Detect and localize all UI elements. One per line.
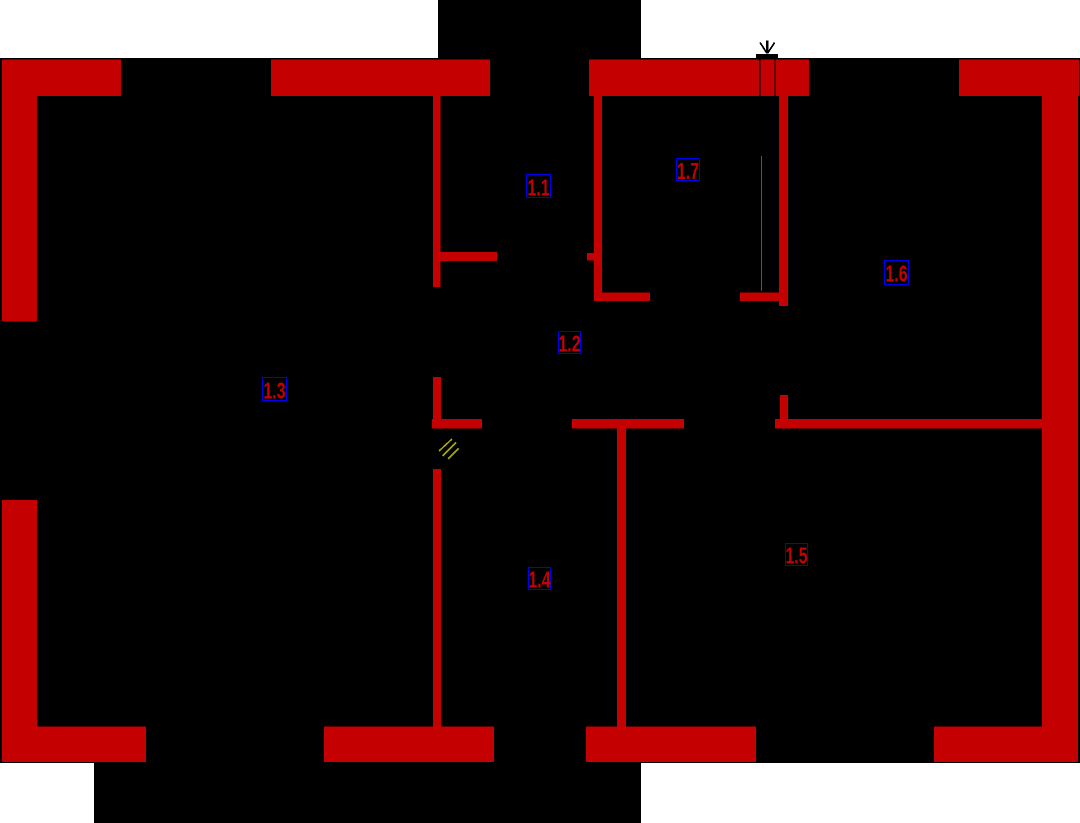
wall left upper vertical	[2, 60, 37, 322]
svg-text:1.1: 1.1	[528, 175, 550, 201]
room label 1.6	[885, 261, 909, 287]
wall right vertical	[1042, 60, 1078, 763]
wall top segment 3	[589, 60, 809, 97]
wall left lower vertical	[2, 500, 37, 762]
room label 1.4	[529, 567, 551, 593]
wall bottom segment 2	[324, 727, 494, 763]
wall tab left of 1.7 wall	[587, 253, 594, 261]
room label 1.2	[559, 331, 581, 357]
entry threshold block	[756, 54, 778, 59]
wall top-right segment	[959, 60, 1079, 97]
room label 1.5	[786, 543, 808, 569]
interior wall 1.7/1.6	[779, 96, 788, 306]
interior wall 1.2/1.3 mid	[433, 377, 441, 428]
wall top-left horizontal	[2, 60, 121, 97]
entry arrow	[760, 41, 775, 54]
interior wall 1.4/1.5	[617, 428, 626, 727]
wall top segment 2	[271, 60, 490, 97]
wall 1.7 bottom right	[740, 293, 779, 302]
entry door jamb line right	[774, 60, 775, 97]
room label 1.3	[263, 378, 287, 404]
svg-text:1.7: 1.7	[677, 158, 699, 184]
svg-text:1.3: 1.3	[264, 378, 286, 404]
green line (door swing) in room 1.7	[761, 156, 763, 291]
interior wall stub 1.2/1.6	[780, 395, 788, 426]
room label 1.1	[527, 175, 551, 201]
interior wall stub 1.1/1.2	[433, 252, 497, 261]
svg-text:1.6: 1.6	[886, 261, 908, 287]
svg-text:1.5: 1.5	[786, 543, 808, 569]
yellow hatch (opening mark)	[439, 439, 459, 459]
wall bottom-left segment	[2, 727, 146, 763]
wall bottom segment 3	[586, 727, 756, 763]
interior wall 1.1/1.3 upper	[433, 96, 441, 287]
room label 1.7	[677, 158, 700, 184]
interior wall 1.2/1.4 horizontal	[572, 419, 684, 429]
svg-text:1.4: 1.4	[529, 567, 551, 593]
svg-text:1.2: 1.2	[559, 331, 581, 357]
interior wall 1.3/1.4 lower	[433, 469, 441, 727]
interior wall 1.1/1.7	[594, 96, 602, 301]
wall bottom-right segment	[934, 727, 1078, 763]
entry door jamb line left	[759, 60, 760, 97]
wall 1.7 bottom left	[594, 293, 650, 302]
interior wall stub 1.2/1.4 left	[432, 419, 482, 429]
interior wall 1.6/1.5 horizontal	[775, 419, 1042, 429]
